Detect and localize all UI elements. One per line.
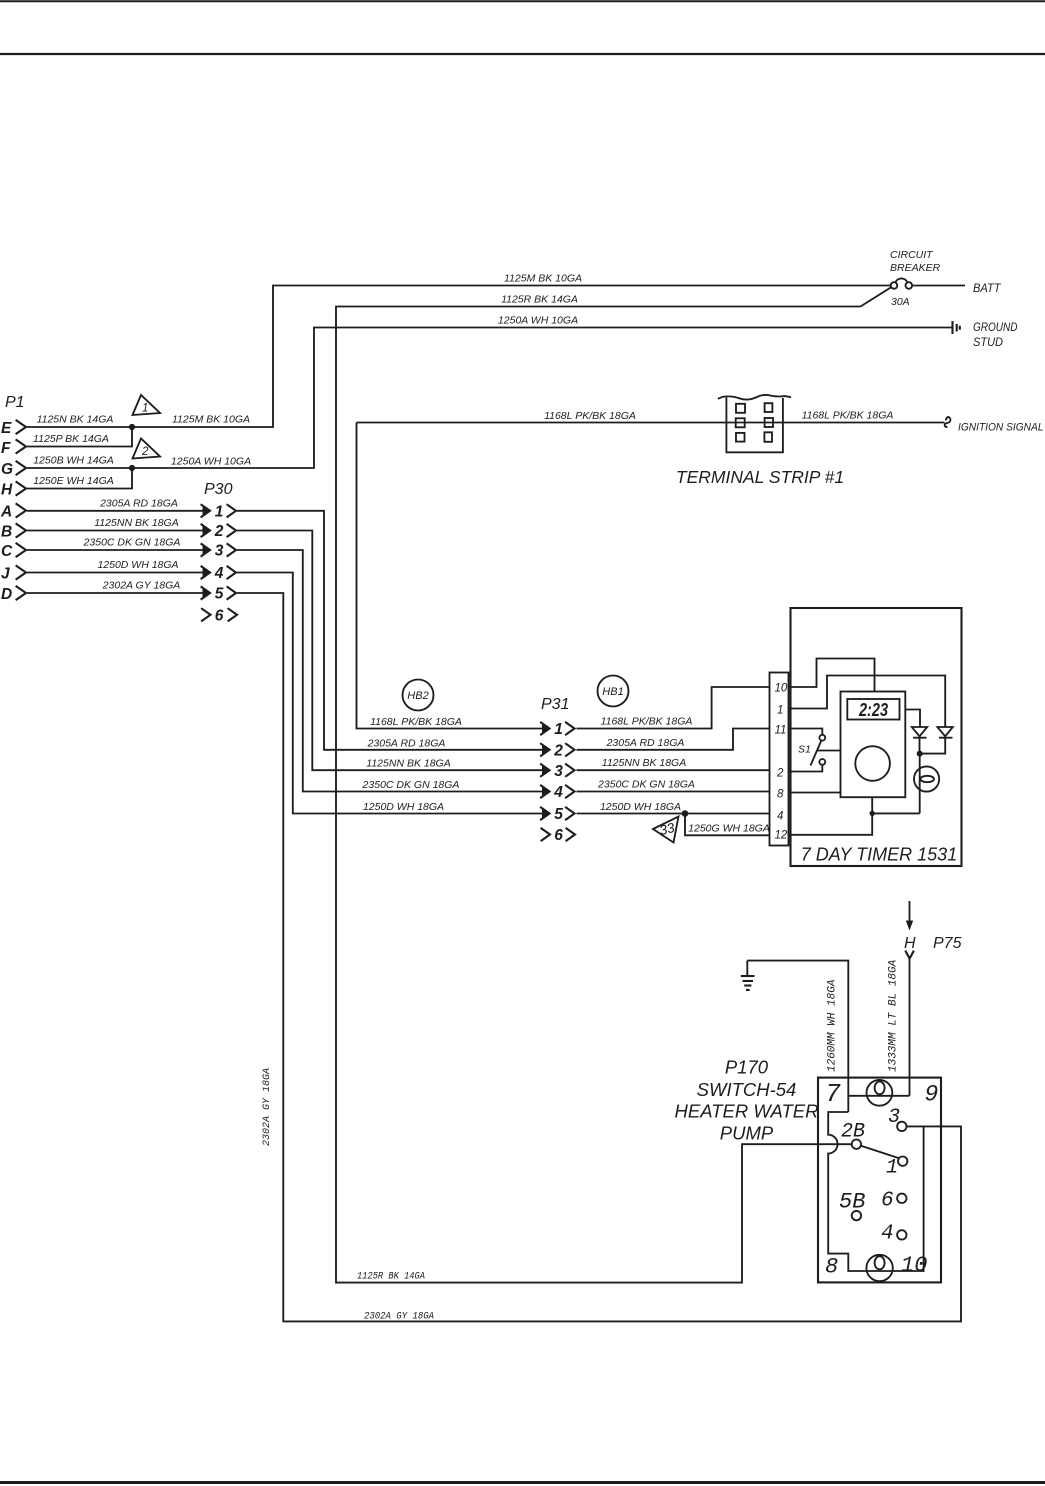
svg-text:2302A GY 18GA: 2302A GY 18GA xyxy=(262,1068,273,1146)
svg-text:10: 10 xyxy=(775,683,788,695)
svg-text:STUD: STUD xyxy=(973,337,1003,349)
svg-text:8: 8 xyxy=(777,789,784,801)
wire 1125NN BK 18GA xyxy=(27,530,205,532)
svg-text:5: 5 xyxy=(554,806,563,823)
wire 1168L PK/BK 18GA (P31-1 to timer pin 10) xyxy=(577,687,770,729)
svg-text:H: H xyxy=(1,482,13,499)
svg-text:11: 11 xyxy=(775,725,787,737)
svg-text:5B: 5B xyxy=(839,1190,865,1215)
wire 2350C DK GN 18GA (P31-4 to timer pin 8) xyxy=(577,791,770,793)
svg-text:2350C DK GN 18GA: 2350C DK GN 18GA xyxy=(597,779,695,791)
wire 2302A GY 18GA xyxy=(27,592,205,594)
svg-text:10: 10 xyxy=(901,1253,927,1278)
svg-text:12: 12 xyxy=(775,830,788,842)
wire 2305A RD 18GA xyxy=(27,510,205,512)
switch S1 xyxy=(798,735,841,766)
wire 2350C DK GN 18GA (P30-3 to P31-4) xyxy=(237,550,547,792)
svg-text:D: D xyxy=(1,586,12,603)
P30 pin 3 xyxy=(202,543,237,560)
svg-text:IGNITION SIGNAL: IGNITION SIGNAL xyxy=(958,422,1044,434)
wire display to left LED xyxy=(905,710,920,727)
svg-text:G: G xyxy=(1,461,13,478)
connector P75 arrow xyxy=(906,901,913,931)
wire 1125P BK 14GA xyxy=(27,427,132,447)
switch-54 outer box xyxy=(818,1078,941,1283)
svg-text:1168L PK/BK 18GA: 1168L PK/BK 18GA xyxy=(370,716,462,728)
wire 2302A GY 18GA (P30-5 down to bottom run, up to switch pin 3) xyxy=(237,593,961,1321)
P31 pin 5 xyxy=(541,806,575,823)
splice callout triangle 1 xyxy=(133,395,161,415)
svg-text:P31: P31 xyxy=(541,696,569,713)
wire 1125NN BK 18GA (P30-2 to P31-3) xyxy=(237,531,547,771)
wire pin7 to pin9 through top lamp xyxy=(848,1095,909,1097)
svg-text:P75: P75 xyxy=(933,935,962,952)
svg-text:J: J xyxy=(1,566,10,583)
svg-text:1125NN BK 18GA: 1125NN BK 18GA xyxy=(94,517,178,529)
svg-text:1125M BK 10GA: 1125M BK 10GA xyxy=(172,414,250,426)
svg-text:1250D WH 18GA: 1250D WH 18GA xyxy=(97,559,178,571)
P30 pin 5 xyxy=(202,586,237,603)
svg-text:1: 1 xyxy=(215,503,224,520)
P30 pin 2 xyxy=(202,523,237,540)
wire 2305A RD 18GA (P30-1 to P31-2) xyxy=(237,511,547,750)
junction node G/H (splice 2) xyxy=(129,465,135,471)
wire timer pin 8 to unit xyxy=(789,792,841,794)
wire 1125NN BK 18GA (P31-3 to timer pin 2) xyxy=(577,769,770,771)
ground xyxy=(741,961,755,990)
svg-text:PUMP: PUMP xyxy=(720,1123,774,1144)
wire 1168L PK/BK 18GA (riser from terminal strip run down to P31-1) xyxy=(357,423,548,729)
svg-text:1: 1 xyxy=(554,721,563,738)
svg-text:1250D WH 18GA: 1250D WH 18GA xyxy=(600,801,681,813)
splice HB1 xyxy=(598,676,629,707)
svg-text:2350C DK GN 18GA: 2350C DK GN 18GA xyxy=(83,537,181,549)
svg-text:4: 4 xyxy=(777,811,783,823)
wire 1260MM WH 18GA (ground to switch pin 7) xyxy=(747,961,848,1112)
svg-text:TERMINAL STRIP #1: TERMINAL STRIP #1 xyxy=(676,467,844,487)
P30 pin 1 xyxy=(202,503,237,520)
svg-text:SWITCH-54: SWITCH-54 xyxy=(697,1079,797,1100)
LED D1 (left) xyxy=(912,727,927,754)
svg-text:S1: S1 xyxy=(798,744,811,756)
svg-text:4: 4 xyxy=(881,1223,894,1246)
timer pin strip xyxy=(770,673,789,846)
svg-text:5: 5 xyxy=(215,586,224,603)
svg-text:1250G WH 18GA: 1250G WH 18GA xyxy=(688,822,770,834)
wire timer pin 11 to S1 xyxy=(789,729,823,735)
svg-text:4: 4 xyxy=(214,565,224,582)
svg-text:1125NN BK 18GA: 1125NN BK 18GA xyxy=(366,758,450,770)
terminal strip #1 xyxy=(718,395,791,452)
svg-text:B: B xyxy=(1,524,12,541)
svg-text:2: 2 xyxy=(214,523,224,540)
svg-text:4: 4 xyxy=(553,784,563,801)
svg-text:1250A WH 10GA: 1250A WH 10GA xyxy=(171,456,251,468)
svg-text:1: 1 xyxy=(886,1157,898,1180)
svg-text:1: 1 xyxy=(777,705,783,717)
splice callout triangle 2 xyxy=(133,439,161,459)
svg-text:9: 9 xyxy=(925,1082,939,1108)
svg-text:30A: 30A xyxy=(891,296,910,308)
svg-text:1168L PK/BK 18GA: 1168L PK/BK 18GA xyxy=(601,716,693,728)
svg-text:1: 1 xyxy=(142,403,148,415)
svg-text:2302A GY 18GA: 2302A GY 18GA xyxy=(364,1312,434,1323)
svg-text:6: 6 xyxy=(554,827,563,844)
wire 1250D WH 18GA (P31-5 to timer pin 4) xyxy=(577,813,770,815)
splice HB2 xyxy=(403,680,434,711)
svg-text:1125R BK 14GA: 1125R BK 14GA xyxy=(501,294,578,306)
svg-text:1260MM WH 18GA: 1260MM WH 18GA xyxy=(827,979,839,1072)
wire 1250D WH 18GA xyxy=(27,572,205,574)
svg-text:2: 2 xyxy=(553,742,563,759)
wire timer pin 12 up to junction xyxy=(789,797,873,835)
svg-text:HEATER WATER: HEATER WATER xyxy=(675,1101,819,1122)
svg-text:HB1: HB1 xyxy=(602,686,623,698)
wire 1250E WH 14GA xyxy=(27,468,132,489)
svg-text:7 DAY TIMER 1531: 7 DAY TIMER 1531 xyxy=(801,845,957,865)
wire 1168L PK/BK 18GA (run through terminal strip to ignition) xyxy=(357,422,945,424)
svg-text:2305A RD 18GA: 2305A RD 18GA xyxy=(367,737,446,749)
ignition signal pigtail xyxy=(945,417,951,427)
timer dial xyxy=(855,746,890,781)
wire 1250D WH 18GA (P30-4 to P31-5) xyxy=(237,573,547,814)
svg-text:2302A GY 18GA: 2302A GY 18GA xyxy=(102,580,181,592)
P31 pin 2 xyxy=(541,742,575,759)
timer display xyxy=(847,699,899,720)
svg-text:1250E WH 14GA: 1250E WH 14GA xyxy=(33,475,114,487)
svg-text:6: 6 xyxy=(215,607,224,624)
svg-text:8: 8 xyxy=(825,1255,838,1280)
svg-text:2: 2 xyxy=(141,446,149,458)
wire LED junction down through lamp xyxy=(919,754,921,814)
svg-text:H: H xyxy=(904,935,916,952)
svg-text:1125N BK 14GA: 1125N BK 14GA xyxy=(37,414,114,426)
wire junction to lamp leg xyxy=(872,812,920,814)
svg-text:1250D WH 18GA: 1250D WH 18GA xyxy=(363,801,444,813)
wire 1125M BK 10GA (E/F junction up to circuit breaker) xyxy=(132,286,890,428)
wire timer pin 10 to unit top xyxy=(789,659,875,692)
svg-text:1168L PK/BK 18GA: 1168L PK/BK 18GA xyxy=(802,410,894,422)
label P170 SWITCH-54 HEATER WATER PUMP xyxy=(675,1057,819,1144)
svg-text:1125NN BK 18GA: 1125NN BK 18GA xyxy=(602,757,686,769)
svg-text:1168L PK/BK 18GA: 1168L PK/BK 18GA xyxy=(544,410,636,422)
splice callout triangle 33 xyxy=(653,817,679,843)
svg-text:BREAKER: BREAKER xyxy=(890,262,941,274)
wire 1333MM LT BL 18GA (H down into switch pin 9) xyxy=(909,959,911,1096)
junction node E/F (splice 1) xyxy=(129,424,135,430)
7 day timer outer box xyxy=(791,608,962,866)
svg-text:2350C DK GN 18GA: 2350C DK GN 18GA xyxy=(362,779,460,791)
P31 pin 1 xyxy=(541,721,575,738)
wire 1250G WH 18GA (splice to timer pin 12) xyxy=(685,814,770,836)
svg-text:3: 3 xyxy=(215,543,224,560)
switch lever 2B-1 xyxy=(861,1146,899,1159)
svg-text:BATT: BATT xyxy=(973,283,1001,295)
svg-text:C: C xyxy=(1,543,13,560)
svg-text:1125M BK 10GA: 1125M BK 10GA xyxy=(504,273,582,285)
svg-text:6: 6 xyxy=(881,1190,894,1213)
wire 1125R BK 14GA (top run + long riser to bottom + to switch pin 2B) xyxy=(336,307,861,1283)
wire 1250A WH 10GA (G/H junction up to ground stud) xyxy=(132,328,952,469)
junction node LED cathodes xyxy=(917,751,923,757)
svg-text:P1: P1 xyxy=(5,394,25,411)
ground stud symbol xyxy=(953,321,960,334)
wire 2350C DK GN 18GA xyxy=(27,549,205,551)
svg-text:2305A RD 18GA: 2305A RD 18GA xyxy=(606,737,685,749)
wire 1250B WH 14GA xyxy=(27,467,132,469)
P31 pin 3 xyxy=(541,763,575,780)
bottom lamp xyxy=(866,1255,892,1281)
svg-text:2305A RD 18GA: 2305A RD 18GA xyxy=(99,497,178,509)
LED D2 (right) xyxy=(920,727,953,754)
circuit breaker 30A xyxy=(890,249,941,308)
border bottom line xyxy=(0,1481,1045,1484)
border top line 2 xyxy=(0,53,1045,55)
P31 pin 6 xyxy=(542,827,576,844)
svg-text:2:23: 2:23 xyxy=(858,700,888,720)
wire 1125N BK 14GA xyxy=(27,426,132,428)
svg-text:2: 2 xyxy=(776,768,784,780)
wire to BATT xyxy=(912,285,965,287)
wire timer pin 2 to S1 xyxy=(789,765,823,772)
svg-text:1125P BK 14GA: 1125P BK 14GA xyxy=(33,433,109,445)
svg-text:A: A xyxy=(0,504,12,521)
P30 pin 4 xyxy=(202,565,237,582)
svg-text:7: 7 xyxy=(825,1079,841,1109)
P30 pin 6 xyxy=(202,607,237,624)
svg-text:CIRCUIT: CIRCUIT xyxy=(890,249,934,261)
switch-54 inner outline xyxy=(828,1112,923,1271)
svg-text:3: 3 xyxy=(554,763,563,780)
svg-text:F: F xyxy=(1,440,11,457)
svg-text:1333MM LT BL 18GA: 1333MM LT BL 18GA xyxy=(888,959,900,1072)
wire timer pin 1 to right LED xyxy=(789,676,946,727)
top lamp xyxy=(867,1080,893,1106)
svg-text:GROUND: GROUND xyxy=(973,322,1018,334)
wire 1125R diagonal into breaker xyxy=(861,287,892,306)
svg-text:1250B WH 14GA: 1250B WH 14GA xyxy=(33,455,114,467)
svg-text:HB2: HB2 xyxy=(407,690,428,702)
border top line 1 xyxy=(0,0,1045,2)
svg-text:E: E xyxy=(1,420,12,437)
junction node splice 33 xyxy=(682,810,689,817)
wire 2305A RD 18GA (P31-2 to timer pin 11) xyxy=(577,729,770,750)
P31 pin 4 xyxy=(541,784,575,801)
svg-text:1250A WH 10GA: 1250A WH 10GA xyxy=(498,315,578,327)
svg-text:P30: P30 xyxy=(204,481,233,498)
junction node (timer pin12/pin4/lamp) xyxy=(870,811,875,816)
lamp (circle with ellipse) xyxy=(914,766,939,791)
svg-text:P170: P170 xyxy=(725,1057,769,1078)
timer unit box xyxy=(841,692,906,798)
P75 pin H chevron xyxy=(906,952,914,959)
svg-text:1125R BK 14GA: 1125R BK 14GA xyxy=(357,1272,425,1283)
